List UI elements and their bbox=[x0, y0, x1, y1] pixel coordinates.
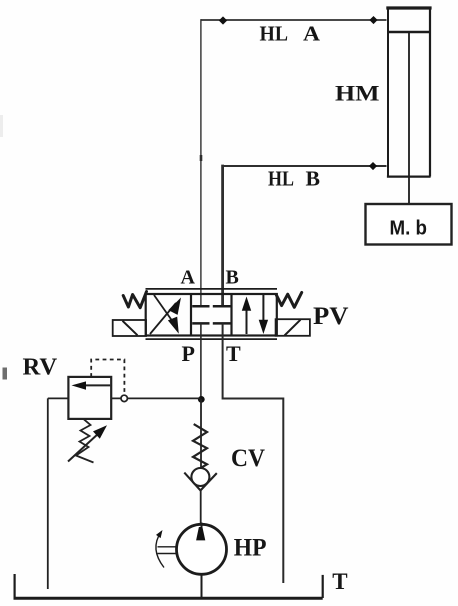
svg-text:T: T bbox=[226, 341, 241, 366]
svg-text:RV: RV bbox=[23, 355, 58, 381]
svg-text:B: B bbox=[306, 167, 321, 191]
svg-text:P: P bbox=[182, 341, 195, 366]
svg-text:B: B bbox=[226, 267, 239, 289]
svg-text:HL: HL bbox=[268, 167, 294, 191]
svg-text:PV: PV bbox=[313, 303, 349, 330]
svg-text:HP: HP bbox=[234, 534, 267, 561]
svg-text:HL: HL bbox=[260, 21, 289, 45]
svg-text:CV: CV bbox=[231, 445, 265, 472]
svg-text:T: T bbox=[332, 569, 347, 594]
svg-text:M. b: M. b bbox=[390, 217, 428, 239]
svg-text:A: A bbox=[181, 267, 196, 289]
svg-text:A: A bbox=[303, 21, 321, 45]
svg-text:HM: HM bbox=[335, 80, 380, 105]
